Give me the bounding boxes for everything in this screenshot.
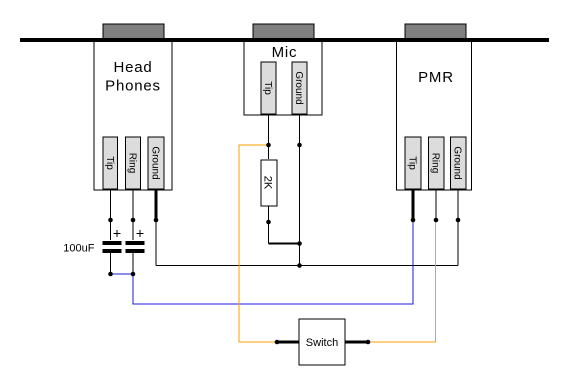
junction C1 bottom [108, 272, 113, 277]
junction PMR tip [411, 218, 416, 223]
svg-text:Tip: Tip [104, 156, 115, 170]
pin J2 Tip [261, 62, 276, 114]
wire switch right lead (thick) [345, 341, 368, 344]
svg-text:Ground: Ground [293, 71, 304, 104]
svg-text:Switch: Switch [306, 337, 338, 349]
wire mic tip [268, 115, 270, 159]
wire switch left lead (thick) [277, 341, 299, 344]
wire PMR ring upper [435, 190, 437, 220]
pin J1 Tip [103, 137, 118, 189]
junction PMR ground [456, 218, 461, 223]
svg-text:Ring: Ring [127, 153, 138, 174]
connector J3 PMR body [397, 40, 472, 190]
pin J3 Tip [405, 137, 421, 189]
junction PMR ring [434, 218, 439, 223]
svg-text:Ground: Ground [150, 146, 161, 179]
junction mic ground bus [297, 263, 302, 268]
wire HP tip lower [110, 252, 112, 274]
junction HP tip [108, 218, 113, 223]
wire HP ring upper [132, 189, 134, 240]
pin J3 Ring [429, 137, 445, 189]
wire HP ground lower [155, 220, 157, 266]
wire HP ring lower [132, 252, 134, 274]
svg-text:2K: 2K [262, 176, 274, 190]
svg-text:Ground: Ground [452, 146, 463, 179]
pin J2 Ground [292, 62, 307, 114]
capacitor C1 100uF plate top [103, 241, 122, 245]
capacitor C1 plate bottom [103, 249, 122, 253]
svg-text:Phones: Phones [105, 78, 161, 95]
pin J1 Ground [148, 137, 164, 189]
wire ground bus [156, 265, 458, 267]
pin J1 Ring [126, 137, 141, 189]
wire mic link (thick) [269, 243, 301, 245]
junction HP ground [154, 218, 159, 223]
svg-text:Ring: Ring [430, 153, 441, 174]
svg-text:Tip: Tip [407, 156, 418, 170]
svg-text:Tip: Tip [262, 81, 273, 95]
junction mic link [297, 241, 302, 246]
panel rail [20, 38, 549, 42]
pin J3 Ground [451, 137, 467, 189]
junction mic tip [266, 143, 271, 148]
capacitor C2 100uF plate top [126, 241, 145, 245]
junction switch left [275, 340, 280, 345]
svg-text:PMR: PMR [418, 69, 454, 86]
connector J1 Head Phones tab [103, 24, 164, 40]
junction resistor bottom [266, 220, 271, 225]
wire HP ground upper (thick) [155, 189, 158, 220]
svg-text:100uF: 100uF [63, 243, 94, 255]
wire mic ground [299, 115, 301, 266]
switch S1 box [299, 319, 345, 365]
wire blue caps to PMR tip [111, 220, 414, 304]
wire mic tip to link [268, 206, 270, 244]
connector J2 Mic tab [253, 24, 314, 40]
junction C2 bottom [131, 272, 136, 277]
junction mic ground upper [297, 143, 302, 148]
junction switch right [366, 340, 371, 345]
resistor R1 2K [261, 160, 277, 206]
wire PMR ground [457, 190, 459, 266]
junction HP ring [131, 218, 136, 223]
capacitor C1 plus sign [114, 230, 121, 237]
wire orange switch right to PMR ring [368, 220, 436, 342]
svg-text:Mic: Mic [272, 44, 298, 61]
wire PMR tip upper (thick) [412, 190, 415, 220]
capacitor C2 plus sign [137, 230, 144, 237]
capacitor C2 plate bottom [126, 249, 145, 253]
connector J2 Mic body [244, 40, 322, 115]
connector J1 Head Phones body [94, 40, 172, 190]
wire orange mic tip to switch left [239, 145, 277, 342]
connector J3 PMR tab [405, 24, 466, 40]
wire HP tip upper [110, 189, 112, 240]
svg-text:Head: Head [113, 59, 152, 76]
